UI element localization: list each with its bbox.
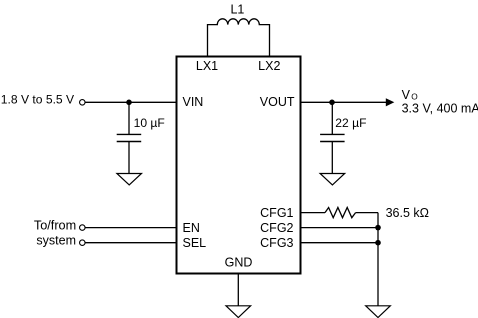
svg-text:36.5 kΩ: 36.5 kΩ: [386, 206, 429, 220]
svg-text:1.8 V to 5.5 V: 1.8 V to 5.5 V: [1, 93, 75, 107]
svg-text:10 µF: 10 µF: [134, 116, 165, 130]
svg-text:EN: EN: [183, 221, 200, 235]
svg-text:V: V: [402, 88, 411, 102]
svg-text:GND: GND: [225, 255, 253, 269]
svg-text:CFG2: CFG2: [260, 221, 293, 235]
svg-text:VOUT: VOUT: [260, 95, 295, 109]
svg-text:L1: L1: [230, 2, 244, 16]
svg-text:LX1: LX1: [196, 59, 218, 73]
svg-text:CFG3: CFG3: [260, 236, 293, 250]
svg-text:22 µF: 22 µF: [335, 116, 366, 130]
svg-text:O: O: [411, 92, 418, 102]
svg-text:LX2: LX2: [258, 59, 280, 73]
svg-text:3.3 V, 400 mA: 3.3 V, 400 mA: [402, 102, 478, 116]
svg-text:To/from: To/from: [34, 219, 76, 233]
svg-text:system: system: [36, 233, 76, 247]
svg-text:VIN: VIN: [183, 95, 204, 109]
svg-text:SEL: SEL: [183, 236, 207, 250]
svg-text:CFG1: CFG1: [260, 206, 293, 220]
